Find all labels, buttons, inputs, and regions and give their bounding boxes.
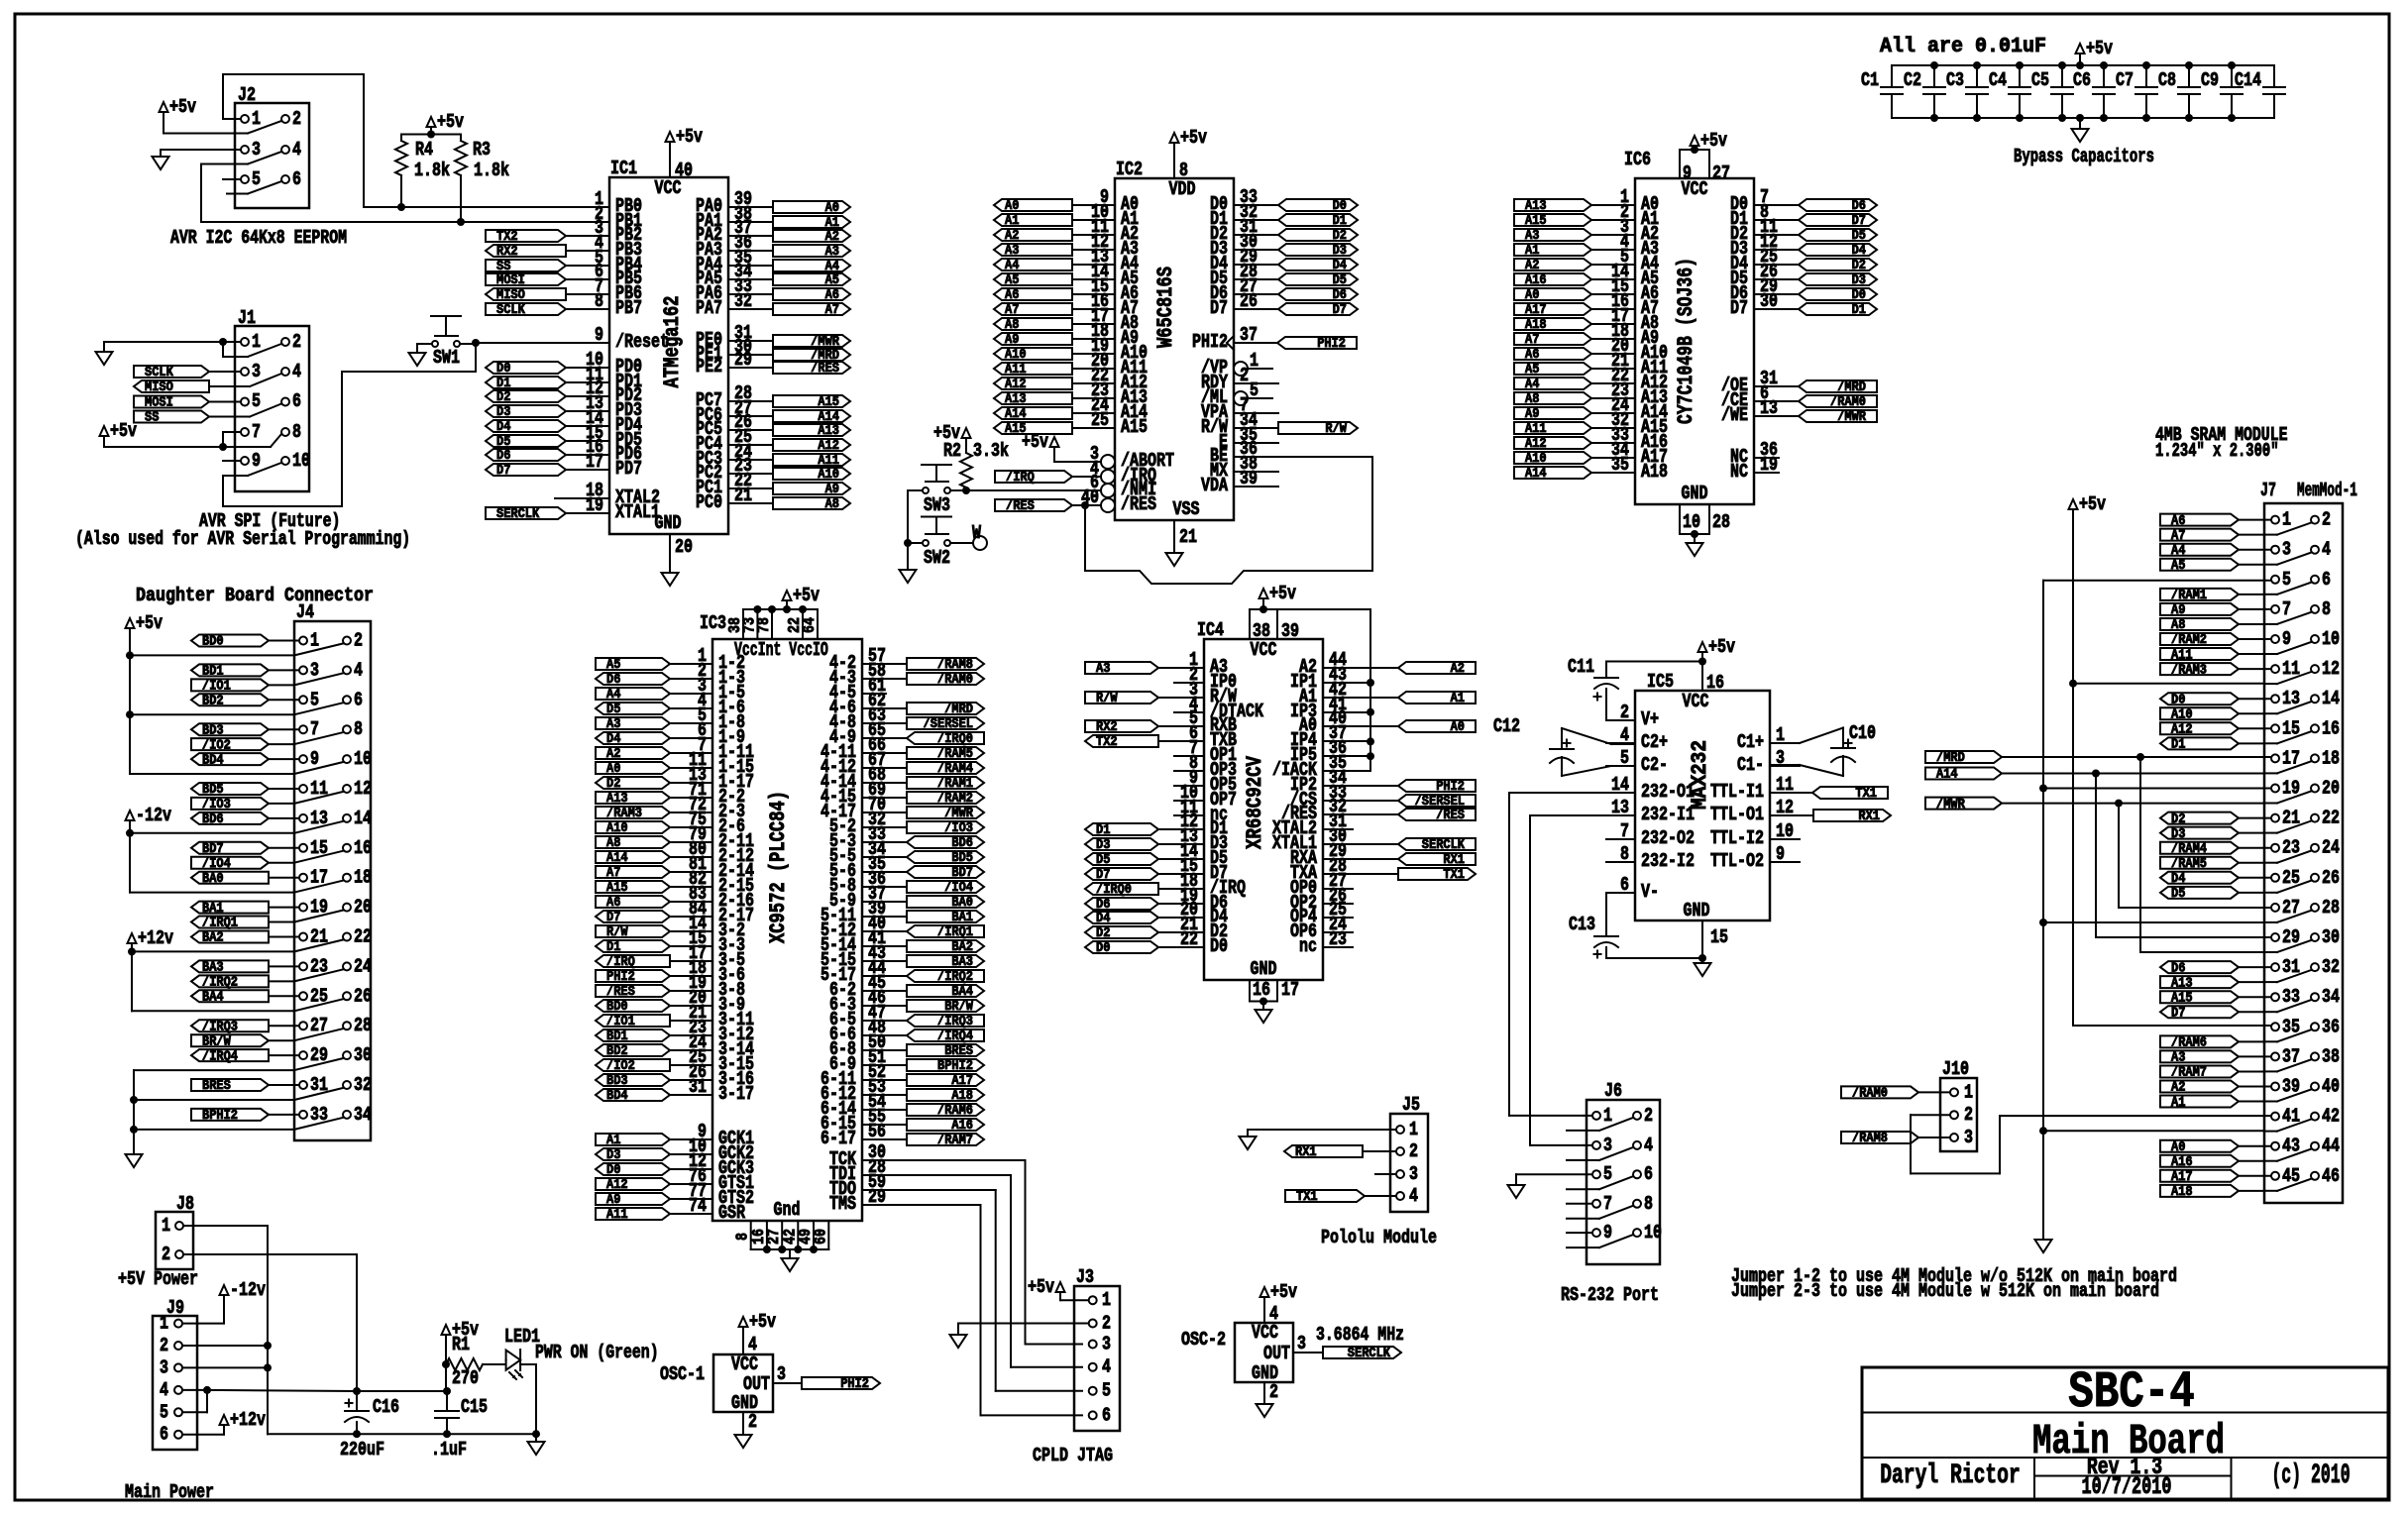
IC1 pin 18 XTAL2 (585, 497, 609, 499)
svg-text:/IO4: /IO4 (202, 857, 231, 872)
capacitor C4 (2019, 65, 2021, 87)
svg-text:Daryl Rictor: Daryl Rictor (1880, 1461, 2021, 1491)
J7 pins 29/30 (2271, 933, 2279, 941)
svg-text:+12v: +12v (230, 1409, 266, 1431)
IC4 pin 21 D2 (1158, 931, 1204, 933)
IC1 pin 37 PA2 (728, 235, 773, 237)
svg-text:6: 6 (292, 168, 301, 190)
net flag /IRQ2 (J4) (191, 975, 269, 987)
svg-text:220uF: 220uF (340, 1439, 384, 1461)
svg-text:BA4: BA4 (202, 991, 224, 1006)
svg-text:20: 20 (354, 897, 372, 919)
net flag /IRQ4 (J4) (191, 1049, 269, 1061)
svg-text:TMS: TMS (829, 1193, 856, 1215)
svg-text:D4: D4 (2171, 872, 2185, 887)
svg-text:XC9572 (PLCC84): XC9572 (PLCC84) (766, 791, 791, 943)
IC3 pin 7 1-11 (689, 752, 712, 754)
svg-text:/RAM8: /RAM8 (937, 658, 973, 673)
net flag D6 (IC6) (1799, 199, 1877, 211)
ground at OSC-1 (735, 1435, 752, 1448)
IC2 pin 8 VDD (1173, 147, 1175, 178)
svg-text:A13: A13 (606, 792, 628, 807)
net flag A18 (J7 pin 46) (2160, 1185, 2239, 1197)
svg-text:A6: A6 (1005, 288, 1019, 303)
svg-text:5: 5 (1603, 1163, 1612, 1185)
IC1 pin 30 PE1 (728, 354, 773, 356)
svg-text:8: 8 (595, 290, 603, 312)
svg-text:RS-232 Port: RS-232 Port (1561, 1284, 1659, 1306)
svg-text:BRES: BRES (944, 1044, 973, 1059)
IC2 pin 37 PHI2 (1234, 342, 1278, 344)
net flag MISO (IC1) (486, 288, 566, 300)
svg-text:IC1: IC1 (610, 158, 637, 179)
svg-text:A16: A16 (2171, 1155, 2193, 1170)
net flag A5 (IC1) (773, 273, 850, 285)
IC4 pin 25 OP4 (1323, 917, 1353, 919)
svg-text:/RAM0: /RAM0 (937, 673, 973, 688)
+5v at IC1 VCC (666, 132, 675, 142)
svg-text:RX1: RX1 (1295, 1145, 1317, 1160)
capacitor C15 (435, 1410, 459, 1412)
svg-text:+5v: +5v (110, 420, 137, 442)
IC4 pin 24 OP6 (1323, 931, 1353, 933)
IC6 pin 17 A8 (1591, 323, 1635, 325)
svg-text:BD0: BD0 (606, 1000, 628, 1015)
svg-text:270: 270 (452, 1367, 479, 1389)
svg-text:A11: A11 (818, 454, 839, 469)
svg-text:A12: A12 (1525, 437, 1547, 452)
IC1 pin 10 PD0 (585, 367, 609, 369)
svg-text:/RAM6: /RAM6 (937, 1104, 973, 1119)
J4 pins 17/18 (299, 874, 307, 882)
J8 pin 2 (175, 1250, 183, 1258)
net flag A6 (IC6) (1514, 348, 1591, 360)
J4 pins 1/2 (299, 637, 307, 645)
IC3 pin 4 1-6 (689, 707, 712, 709)
IC3 pin 46 6-3 (862, 1005, 907, 1007)
net flag /RAM4 (IC3) (907, 762, 984, 774)
svg-text:SW2: SW2 (924, 547, 950, 569)
IC6 pin 23 A13 (1591, 397, 1635, 399)
net flag /RAM6 (J7 pin 36) (2160, 1035, 2239, 1047)
IC1 pin 14 PD4 (585, 425, 609, 427)
svg-text:D5: D5 (606, 703, 620, 717)
IC4 pin 37 IP4 (1323, 740, 1370, 742)
svg-text:1.8k: 1.8k (474, 160, 509, 181)
IC4 pin 13 D3 (1158, 843, 1204, 845)
svg-text:46: 46 (2322, 1165, 2340, 1187)
wire J1 pin6 diag (250, 404, 281, 417)
net flag A6 (IC3) (596, 896, 670, 908)
svg-text:/IO3: /IO3 (944, 821, 973, 836)
IC5 pin 14 232-O1 (1606, 792, 1635, 794)
IC2 pin 26 D7 (1234, 308, 1278, 310)
net flag A16 (IC6) (1514, 273, 1591, 285)
IC2 pin 38 MX (1234, 471, 1278, 473)
svg-text:BA4: BA4 (951, 985, 973, 1000)
svg-text:MOSI: MOSI (496, 273, 525, 288)
net flag A15 (IC3) (596, 881, 670, 893)
net flag /RAM3 (J7 pin 11) (2160, 663, 2239, 675)
svg-text:TTL-I1: TTL-I1 (1710, 781, 1764, 803)
IC6 pin 19 NC (1754, 472, 1779, 474)
svg-text:J5: J5 (1402, 1094, 1420, 1116)
J7 pins 7/8 (2271, 605, 2279, 613)
IC3 pin 50 6-8 (862, 1049, 907, 1051)
svg-text:12: 12 (354, 778, 372, 800)
svg-text:A13: A13 (818, 424, 839, 439)
svg-text:C16: C16 (373, 1396, 399, 1418)
net flag A5 (IC2) (994, 273, 1072, 285)
junction R3 bottom (457, 218, 465, 226)
net flag BD5 (J4) (191, 783, 269, 795)
svg-text:BA1: BA1 (202, 902, 224, 917)
svg-text:8: 8 (1179, 160, 1188, 181)
J6 pins 1/2 (1592, 1112, 1600, 1120)
svg-text:A4: A4 (606, 688, 620, 703)
svg-text:42: 42 (2322, 1106, 2340, 1128)
IC2 pin 3 /ABORT (1101, 455, 1115, 469)
svg-text:nc: nc (1299, 935, 1317, 957)
IC3 pin 59 TDO (862, 1189, 886, 1191)
net flag A15 (IC2) (994, 422, 1072, 434)
IC1 pin 3 PB2 (585, 235, 609, 237)
+5v at J2 (160, 102, 168, 112)
net flag /RAM0 (IC6) (1799, 395, 1877, 407)
J9 pin 5 (174, 1408, 182, 1416)
svg-text:A7: A7 (606, 866, 620, 881)
IC6 pin 3 A2 (1591, 234, 1635, 236)
net flag /RAM3 (IC3) (596, 807, 670, 818)
svg-text:D1: D1 (1096, 823, 1110, 838)
svg-text:1: 1 (1102, 1289, 1111, 1311)
svg-text:C8: C8 (2158, 69, 2176, 91)
ground at J5 (1240, 1137, 1257, 1149)
OSC-1 pin 3 PHI2 (773, 1382, 802, 1384)
IC1 pin 33 PA6 (728, 293, 773, 295)
svg-text:4: 4 (1269, 1303, 1278, 1325)
svg-text:26: 26 (354, 985, 372, 1007)
net flag A3 (IC1) (773, 245, 850, 257)
svg-text:4: 4 (1409, 1185, 1418, 1207)
svg-text:C9: C9 (2201, 69, 2219, 91)
IC1 pin 35 PA4 (728, 265, 773, 267)
IC5 pin 8 232-I2 (1606, 861, 1635, 863)
IC4 pin 6 TXB (1158, 740, 1204, 742)
svg-text:37: 37 (1240, 324, 1258, 346)
svg-text:+5v: +5v (2079, 493, 2106, 515)
svg-text:Daughter Board Connector: Daughter Board Connector (136, 585, 374, 606)
J4 pins 23/24 (299, 962, 307, 970)
net flag A13 (IC2) (994, 392, 1072, 404)
IC1 pin 12 PD2 (585, 395, 609, 397)
net flag BD7 (IC3) (907, 866, 984, 878)
capacitor C7 (2145, 65, 2147, 87)
svg-text:1: 1 (310, 630, 319, 652)
J7 pins 31/32 (2271, 963, 2279, 971)
-12v at J9 (220, 1285, 229, 1295)
svg-text:C15: C15 (461, 1396, 488, 1418)
net flag A11 (IC3) (596, 1208, 670, 1220)
svg-text:C11: C11 (1568, 656, 1594, 678)
rail /MWR to pin27 (2118, 804, 2120, 908)
svg-text:3: 3 (1297, 1333, 1306, 1354)
IC3 XC9572 body (712, 639, 862, 1221)
svg-text:/MRD: /MRD (1936, 751, 1965, 766)
junction IC6 VCC (1691, 146, 1698, 154)
IC3 pin 66 4-11 (862, 752, 907, 754)
net flag SERCLK (IC1) (486, 507, 566, 519)
svg-text:7: 7 (1603, 1193, 1612, 1215)
J7 pins 15/16 (2271, 724, 2279, 732)
svg-text:+5v: +5v (1270, 1281, 1297, 1303)
net flag A1 (IC3) (596, 1134, 670, 1145)
wire +5v to J2 pin2 (163, 116, 164, 134)
svg-text:A1: A1 (825, 216, 839, 231)
svg-text:9: 9 (595, 324, 603, 346)
J7 pins 9/10 (2271, 635, 2279, 643)
svg-text:A11: A11 (2171, 648, 2193, 663)
svg-text:A2: A2 (825, 230, 839, 245)
J4 pins 33/34 (299, 1111, 307, 1119)
svg-text:PD7: PD7 (615, 458, 642, 480)
svg-text:D2: D2 (1096, 926, 1110, 941)
net flag D3 (IC4) (1085, 838, 1158, 850)
net flag SERCLK (IC4) (1398, 838, 1476, 850)
svg-text:44: 44 (2322, 1136, 2340, 1157)
J6 pins 5/6 (1592, 1170, 1600, 1178)
J7 pins 37/38 (2271, 1052, 2279, 1060)
svg-text:BD0: BD0 (202, 635, 224, 650)
svg-text:PWR ON (Green): PWR ON (Green) (535, 1342, 659, 1363)
IC1 pin 38 PA1 (728, 221, 773, 223)
IC4 pin 11 nc (1174, 814, 1204, 816)
svg-text:+5v: +5v (1028, 1276, 1054, 1298)
J6 pin 8 diag (1599, 1206, 1633, 1219)
IC3 pin 58 4-3 (862, 678, 907, 680)
svg-text:Bypass Capacitors: Bypass Capacitors (2014, 146, 2154, 167)
IC3 pin 12 GCK3 (689, 1168, 712, 1170)
wire J9 pin4 +5 node (182, 1389, 207, 1391)
IC3 pin 1 1-2 (689, 663, 712, 665)
svg-text:GND: GND (1684, 900, 1710, 921)
IC3 pin 84 2-17 (689, 916, 712, 918)
svg-text:A10: A10 (606, 821, 628, 836)
junction SW1 node (472, 339, 480, 347)
J4 pins 9/10 (299, 755, 307, 763)
svg-text:A4: A4 (2171, 544, 2185, 559)
net flag A0 (IC6) (1514, 288, 1591, 300)
net flag A2 (IC4) (1398, 662, 1476, 674)
svg-text:9: 9 (1776, 843, 1785, 865)
IC6 pin 8 D1 (1754, 219, 1799, 221)
net flag BPHI2 (J4) (191, 1109, 269, 1121)
net flag D4 (IC6) (1799, 244, 1877, 256)
net flag R/W (IC4) (1085, 692, 1158, 704)
net flag D1 (IC4) (1085, 823, 1158, 835)
svg-text:A6: A6 (825, 288, 839, 303)
net flag /RAM0 (IC3) (907, 673, 984, 685)
svg-text:A1: A1 (1451, 692, 1465, 706)
svg-text:4: 4 (292, 361, 301, 382)
svg-text:NC: NC (1730, 461, 1748, 483)
IC5 pin 11 TTL-I1 (1770, 792, 1800, 794)
svg-text:A5: A5 (2171, 559, 2185, 574)
wire J9 pin1 to -12v (182, 1323, 224, 1325)
net flag /RAM1 (J7 pin 6) (2160, 589, 2239, 600)
svg-text:4: 4 (1620, 724, 1629, 746)
net flag /SERSEL (IC3) (907, 717, 984, 729)
IC4 pin 7 OP1 (1174, 755, 1204, 757)
net flag SERCLK (OSC-2) (1323, 1347, 1401, 1358)
IC3 pin 48 6-6 (862, 1034, 907, 1036)
net flag /MWR (IC1) (773, 335, 850, 347)
svg-text:9: 9 (2282, 628, 2291, 650)
+5v at R1 (442, 1325, 451, 1335)
J4 pins 13/14 (299, 814, 307, 822)
svg-text:31: 31 (689, 1076, 707, 1098)
IC3 pin 9 GCK1 (689, 1138, 712, 1140)
J6 pins 9/10 (1592, 1229, 1600, 1237)
svg-text:3.6864 MHz: 3.6864 MHz (1316, 1324, 1404, 1346)
svg-text:/IRQ1: /IRQ1 (202, 917, 238, 931)
net flag /IO1 (J4) (191, 679, 269, 691)
net flag RX1 (IC5) (1813, 810, 1891, 821)
svg-text:A5: A5 (1525, 363, 1539, 378)
svg-text:9: 9 (310, 748, 319, 770)
net flag A1 (IC4) (1398, 692, 1476, 704)
svg-text:V+: V+ (1641, 708, 1659, 730)
svg-text:34: 34 (2322, 986, 2340, 1008)
svg-text:10: 10 (2322, 628, 2340, 650)
svg-text:2: 2 (1644, 1105, 1653, 1127)
net flag A12 (IC1) (773, 439, 850, 451)
junction IC4 GND (1259, 998, 1267, 1006)
svg-text:A11: A11 (606, 1208, 628, 1223)
svg-text:A1: A1 (606, 1134, 620, 1148)
switch SW2 (922, 516, 951, 518)
IC3 pin 53 6-12 (862, 1094, 907, 1096)
J9 pin 4 (174, 1386, 182, 1394)
IC1 pin 24 PC3 (728, 459, 773, 461)
J7 pins 41/42 (2271, 1113, 2279, 1121)
capacitor C11 (1594, 677, 1618, 679)
net flag TX1 (J5) (1285, 1190, 1365, 1202)
svg-text:/IRQ4: /IRQ4 (937, 1029, 973, 1044)
svg-text:A10: A10 (2171, 707, 2193, 722)
svg-text:OUT: OUT (1263, 1343, 1290, 1364)
wire TCK to J3 (886, 1159, 1026, 1161)
svg-text:+5v: +5v (136, 612, 163, 634)
net flag A8 (J7 pin 8) (2160, 618, 2239, 630)
svg-text:D6: D6 (496, 449, 510, 464)
svg-text:A14: A14 (818, 410, 839, 425)
svg-text:BD5: BD5 (202, 783, 224, 798)
svg-text:D6: D6 (2171, 961, 2185, 976)
svg-text:/RAM2: /RAM2 (2171, 633, 2207, 648)
svg-text:SCLK: SCLK (145, 366, 174, 380)
svg-text:A5: A5 (606, 658, 620, 673)
svg-text:8: 8 (1620, 843, 1629, 865)
svg-text:7: 7 (310, 718, 319, 740)
IC5 pin 9 TTL-O2 (1770, 861, 1800, 863)
IC3 pin 5 1-8 (689, 722, 712, 724)
svg-text:/RAM4: /RAM4 (2171, 842, 2207, 857)
svg-text:A11: A11 (1005, 363, 1027, 378)
connector J2 (235, 103, 309, 208)
IC1 pin 1 PB0 (585, 206, 609, 208)
J7 pins 35/36 (2271, 1023, 2279, 1030)
svg-text:/IRQ3: /IRQ3 (202, 1020, 238, 1034)
svg-text:18: 18 (354, 867, 372, 889)
svg-text:RX1: RX1 (1858, 810, 1880, 824)
net flag D0 (IC1) (486, 362, 566, 374)
ground at IC6 (1687, 543, 1703, 556)
svg-text:3: 3 (1603, 1135, 1612, 1156)
junction R2/SW3 (962, 487, 970, 494)
IC3 pin 11 1-15 (689, 767, 712, 769)
IC5 pin 13 232-I1 (1606, 814, 1635, 816)
ground at OSC-2 (1257, 1404, 1273, 1417)
svg-text:/RAM7: /RAM7 (937, 1134, 973, 1148)
svg-text:1: 1 (252, 331, 261, 353)
svg-text:A6: A6 (1525, 348, 1539, 363)
IC2 pin 16 A7 (1072, 308, 1115, 310)
net flag D6 (IC4) (1085, 898, 1158, 910)
capacitor C8 (2188, 65, 2190, 87)
svg-text:+5v: +5v (793, 585, 820, 606)
svg-text:16: 16 (2322, 717, 2340, 739)
svg-text:A2: A2 (1525, 259, 1539, 273)
net flag BD1 (J4) (191, 664, 269, 676)
IC6 pin 5 A4 (1591, 264, 1635, 266)
svg-text:R3: R3 (473, 139, 491, 161)
svg-text:3.3k: 3.3k (973, 440, 1009, 462)
svg-text:D3: D3 (606, 1148, 620, 1163)
net flag RX2 (IC4) (1085, 720, 1158, 732)
svg-text:A10: A10 (818, 468, 839, 483)
wire J9 pin5 tie (206, 1390, 208, 1412)
svg-text:/MWR: /MWR (1936, 798, 1966, 812)
svg-text:BA3: BA3 (202, 961, 224, 976)
svg-text:35: 35 (1611, 454, 1629, 476)
svg-text:30: 30 (1760, 290, 1778, 312)
svg-text:C2-: C2- (1641, 754, 1668, 776)
svg-text:/IO2: /IO2 (606, 1059, 635, 1074)
svg-text:5: 5 (252, 390, 261, 412)
svg-text:5: 5 (2282, 569, 2291, 591)
wire J6 pin7 stub (1567, 1203, 1592, 1205)
J4 pins 3/4 (299, 666, 307, 674)
net flag D0 (IC4) (1085, 941, 1158, 953)
net flag BR/W (J4) (191, 1034, 269, 1046)
svg-text:OSC-1: OSC-1 (660, 1363, 705, 1385)
svg-text:BPHI2: BPHI2 (202, 1109, 238, 1124)
net flag /IO3 (J4) (191, 798, 269, 810)
IC4 pin 1 A3 (1158, 667, 1204, 669)
net flag TX1 (IC5) (1812, 787, 1888, 799)
resistor R1 (446, 1358, 483, 1370)
IC3 pin 47 6-5 (862, 1020, 907, 1022)
J6 pins 3/4 (1592, 1141, 1600, 1149)
IC1 pin 4 PB3 (585, 250, 609, 252)
svg-text:36: 36 (2322, 1016, 2340, 1037)
net flag /IO3 (IC3) (907, 821, 984, 833)
ground rail at J4 (133, 1070, 135, 1154)
IC3 pin 65 4-9 (862, 737, 907, 739)
J7 pin 40 diag (2277, 1090, 2311, 1102)
IC2 pin 39 VDA (1234, 486, 1278, 487)
